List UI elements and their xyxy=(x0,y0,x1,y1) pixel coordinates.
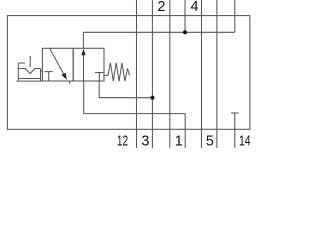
pilot detent: top stub xyxy=(18,62,25,64)
wire: valve port 1 to conduit 1 xyxy=(84,81,186,114)
arrowhead of right box flow path xyxy=(81,49,85,56)
wire conduit (x=201.5) xyxy=(201,0,203,148)
pilot detent: notched bar with V xyxy=(18,69,40,74)
wire conduit 2 xyxy=(169,0,171,148)
left box blocked port T xyxy=(45,71,53,73)
valve body right box xyxy=(73,48,104,81)
wire conduit 3 xyxy=(151,0,153,148)
wire: valve port 3 to node A2 xyxy=(99,81,152,98)
svg-text:14: 14 xyxy=(239,134,251,149)
wire: valve port 4 riser to top bus xyxy=(83,32,234,48)
pilot detent: left vertical xyxy=(17,63,19,81)
node A2 junction dot xyxy=(150,96,154,100)
svg-text:12: 12 xyxy=(117,134,128,148)
pilot to valve stub xyxy=(41,70,43,72)
pilot detent: mid bottom line xyxy=(18,78,40,80)
outer frame (valve sub-base box) xyxy=(7,16,250,130)
pilot detent: pin xyxy=(29,56,31,67)
right box blocked port T xyxy=(95,72,103,74)
valve body left box xyxy=(42,48,73,81)
wire conduit 12 xyxy=(136,0,138,148)
wire conduit 5 xyxy=(216,0,218,148)
port stub below valve xyxy=(69,81,71,84)
svg-text:2: 2 xyxy=(157,0,165,15)
return spring xyxy=(104,63,130,81)
arrowhead of left box flow path xyxy=(62,73,67,80)
pilot detent: bottom line xyxy=(17,80,43,82)
wire conduit 1 lower segment xyxy=(184,114,186,148)
right box flow path vertical xyxy=(83,54,85,82)
left box flow path diagonal xyxy=(50,48,64,74)
node A junction dot xyxy=(183,30,187,34)
svg-text:4: 4 xyxy=(190,0,198,15)
svg-text:1: 1 xyxy=(175,134,183,148)
svg-text:5: 5 xyxy=(206,134,214,148)
wire conduit 4 upper segment to node A xyxy=(184,0,186,32)
port 14 blanking plug T xyxy=(231,112,239,114)
svg-text:3: 3 xyxy=(141,134,149,148)
wire conduit 14 upper segment xyxy=(234,0,236,32)
pilot detent: right edge xyxy=(40,69,42,82)
